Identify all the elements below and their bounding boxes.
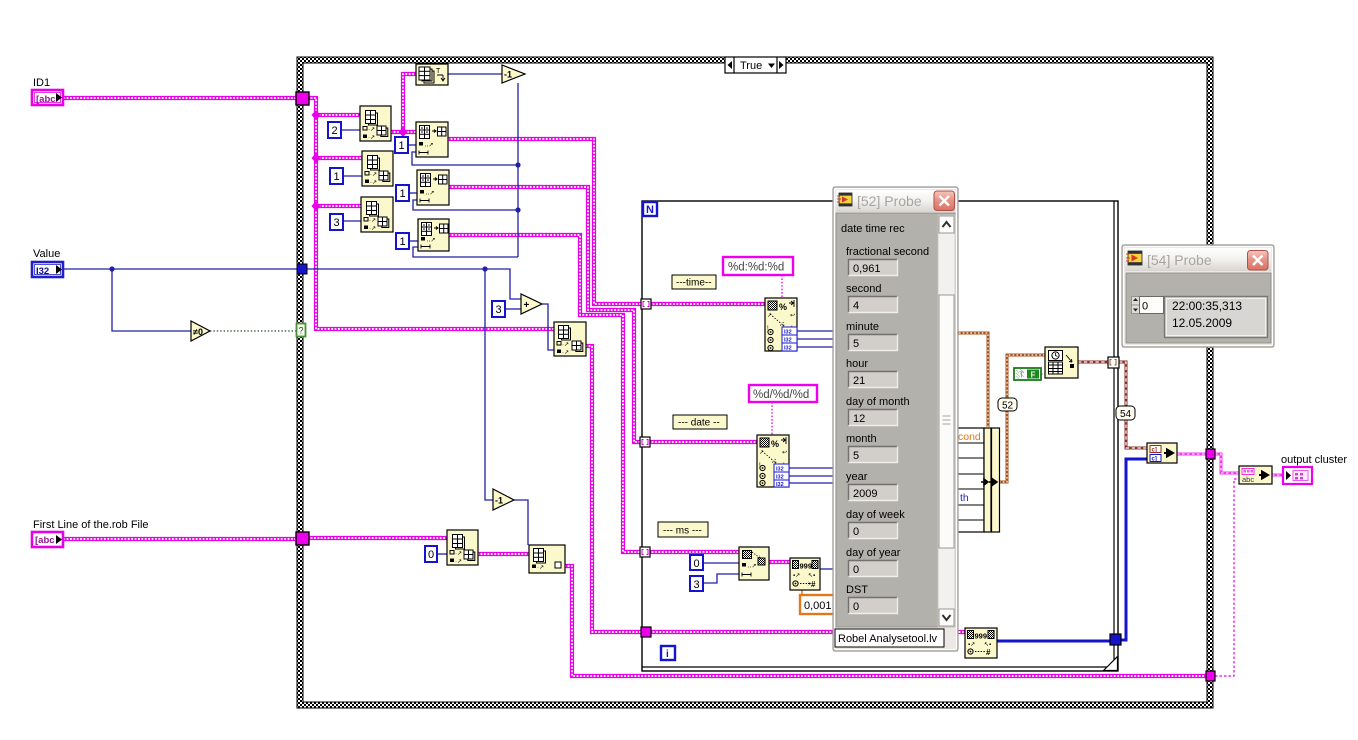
- svg-text:0: 0: [694, 558, 700, 570]
- wire cluster brown from probe area down to cluster column: [940, 333, 988, 427]
- wire Value branch to not-equal-zero: [112, 269, 191, 331]
- wire const 1 to node B: [343, 175, 362, 177]
- svg-text:‥↗: ‥↗: [427, 238, 436, 244]
- node index array B: [362, 151, 393, 186]
- svg-text:1: 1: [334, 171, 340, 183]
- node index array first-line: [447, 530, 478, 565]
- svg-text:%d/%d/%d: %d/%d/%d: [753, 389, 809, 401]
- node array subset A: [416, 122, 448, 157]
- svg-text:I32: I32: [36, 266, 49, 277]
- node scan time string: [765, 298, 797, 352]
- node decrement lower: [493, 489, 514, 510]
- wire First Line chain outside: [64, 537, 297, 541]
- probe 54 close button: [1248, 251, 1269, 271]
- wire date node I32 outputs: [789, 467, 835, 469]
- svg-text:22:00:35,313: 22:00:35,313: [1172, 299, 1242, 313]
- node index array second: [529, 545, 565, 573]
- svg-text:3: 3: [496, 304, 502, 316]
- node transpose 2D array: [416, 64, 448, 85]
- wire branch to index node B: [316, 156, 362, 160]
- constant 0,001 orange: [800, 595, 834, 614]
- svg-text:≠0: ≠0: [193, 327, 203, 337]
- constant 1 for subset A: [395, 137, 408, 153]
- format string %d:%d:%d: [723, 257, 793, 275]
- svg-text:12.05.2009: 12.05.2009: [1172, 316, 1232, 330]
- svg-text:21: 21: [853, 375, 865, 387]
- svg-text:2: 2: [332, 125, 338, 137]
- node 999 scan mid: [790, 558, 820, 590]
- svg-text:0,001: 0,001: [804, 600, 832, 612]
- probe 52 titlebar icon: [837, 193, 852, 206]
- constant 3: [330, 214, 343, 230]
- node scan date string: [757, 435, 789, 488]
- svg-text:0: 0: [428, 549, 434, 561]
- svg-text:0,961: 0,961: [853, 263, 881, 275]
- probe window 52: [833, 187, 958, 651]
- wire index node out to second node: [478, 552, 529, 556]
- node array subset C: [418, 219, 449, 251]
- node array subset B: [417, 170, 449, 205]
- junction dots blue: [109, 266, 114, 271]
- svg-text:F: F: [1031, 371, 1036, 380]
- constant 3 for plus: [492, 301, 505, 317]
- probe 54 time display: [1165, 297, 1268, 338]
- svg-text:·↗: ·↗: [562, 342, 569, 348]
- svg-text:‥↗: ‥↗: [426, 191, 435, 197]
- wire subset B out to loop tunnel 2: [449, 187, 642, 442]
- label 54: [1116, 406, 1135, 420]
- constant 1 for subset B: [396, 185, 409, 201]
- wire const 1 to subset C: [409, 240, 418, 242]
- wire node A out to subset A with transpose branch: [391, 130, 416, 134]
- node 999 scan bottom: [965, 628, 997, 658]
- tunnel loop magenta solid: [641, 627, 651, 637]
- svg-text:output cluster: output cluster: [1281, 454, 1347, 466]
- svg-text:Value: Value: [33, 248, 60, 260]
- constant 1: [330, 168, 343, 184]
- svg-text:c]: c]: [1152, 448, 1157, 454]
- constant 0 for ms: [690, 555, 703, 570]
- wire Value I32 outside: [64, 268, 297, 270]
- svg-text:0: 0: [1142, 301, 1148, 313]
- svg-text:[abc: [abc: [36, 94, 56, 105]
- svg-text:I32: I32: [784, 346, 792, 352]
- wire const 3 to plus: [505, 308, 521, 310]
- probe window 54: [1122, 245, 1274, 347]
- constant 0 for first-line node: [425, 546, 437, 562]
- svg-text:·↗: ·↗: [369, 218, 376, 224]
- terminal ID1: [32, 77, 63, 105]
- svg-text:▪↗: ▪↗: [968, 642, 975, 648]
- probe 52 scrollbar: [938, 215, 955, 627]
- wire cluster column arrow out up to format node: [999, 355, 1045, 482]
- svg-text:True: True: [740, 60, 762, 72]
- wire branch to index node C: [316, 204, 361, 208]
- svg-text:5: 5: [853, 338, 859, 350]
- svg-text:↗: ↗: [759, 450, 764, 456]
- wire abc bundle out to output cluster indicator: [1272, 474, 1283, 477]
- svg-text:2009: 2009: [853, 488, 877, 500]
- label date: [673, 415, 727, 429]
- wire const 2 to node A: [341, 129, 360, 131]
- tunnel case right magenta: [1206, 449, 1215, 459]
- svg-text:3: 3: [694, 579, 700, 591]
- svg-text:[52] Probe: [52] Probe: [857, 193, 922, 209]
- probe 52 fields: [846, 246, 929, 614]
- wire const 1 to subset B: [409, 192, 417, 194]
- tunnel loop cluster [] right: [1108, 357, 1119, 368]
- wire second node out along bottom to case right tunnel: [565, 566, 1207, 676]
- svg-text:5: 5: [853, 450, 859, 462]
- wire ID1 string-array chain: [64, 96, 297, 100]
- tunnel Value on case border: [297, 264, 307, 274]
- node ms array subset: [739, 547, 769, 580]
- svg-text:day of week: day of week: [846, 509, 905, 521]
- wire Value inside to plus node: [306, 269, 521, 299]
- svg-text:-1: -1: [495, 496, 503, 506]
- tunnel loop blue solid right: [1110, 634, 1121, 645]
- wire orange 0,001 to 999 node: [802, 589, 820, 595]
- svg-text:c]: c]: [1152, 457, 1157, 463]
- wire loop tunnel out down to bundle node (dark red dashed): [1119, 362, 1147, 448]
- svg-text:·↗: ·↗: [562, 350, 569, 356]
- svg-text:54: 54: [1120, 409, 1132, 420]
- svg-text:day of month: day of month: [846, 396, 910, 408]
- svg-text:i: i: [666, 649, 669, 660]
- probe 52 close button: [934, 191, 955, 211]
- svg-text:·↗: ·↗: [368, 127, 375, 133]
- svg-text:year: year: [846, 471, 868, 483]
- svg-text:minute: minute: [846, 321, 879, 333]
- svg-text:--- ms ---: --- ms ---: [663, 526, 702, 537]
- svg-text:T: T: [436, 68, 441, 75]
- wire format node out to loop border tunnel (dark red dashed): [1078, 361, 1108, 364]
- cluster constant column: [957, 428, 1000, 532]
- wire transpose out to top decrement: [448, 73, 502, 75]
- wire const 1 to subset A: [408, 144, 416, 146]
- wire bottom tunnel up to abc bundle (thin pink dashed): [1215, 479, 1239, 676]
- svg-text:N: N: [646, 204, 654, 216]
- wire 999 bottom node out to loop tunnel and up to bundle: [997, 640, 1111, 643]
- svg-text:abc: abc: [1242, 475, 1254, 484]
- case selector terminal ?: [297, 324, 306, 337]
- probe 54 titlebar icon: [1126, 251, 1142, 265]
- wire time node I32 outputs: [797, 330, 835, 332]
- svg-text:1: 1: [400, 188, 406, 200]
- wire plus out to big index node: [542, 304, 554, 350]
- svg-text:#: #: [811, 580, 816, 589]
- svg-text:First Line of the.rob File: First Line of the.rob File: [33, 519, 149, 531]
- wire loop tunnel1 to time scan node: [650, 302, 765, 306]
- constant 3 for ms: [690, 576, 703, 591]
- node index array A: [360, 106, 391, 141]
- wire lower decrement out to second node: [514, 500, 528, 545]
- wire TF constant to format node: [1041, 373, 1045, 375]
- svg-text:%: %: [771, 439, 779, 449]
- svg-text:cond: cond: [958, 431, 981, 443]
- constant 1 for subset C: [396, 233, 409, 249]
- node decrement top: [502, 65, 525, 83]
- page curl bottom-right: [1104, 657, 1118, 671]
- svg-text:3: 3: [334, 217, 340, 229]
- wire First Line inside to index node: [308, 536, 447, 540]
- wire format string %d/%d/%d to date node: [771, 402, 773, 435]
- wire 999 mid node out: [820, 568, 836, 570]
- label 52: [998, 398, 1017, 412]
- svg-text:#: #: [986, 648, 991, 657]
- wire subset C out to loop tunnel 3: [449, 235, 642, 552]
- svg-text:·↗: ·↗: [537, 565, 544, 571]
- terminal First Line of the.rob File: [32, 519, 149, 547]
- wire ms node to 999 node: [769, 560, 790, 564]
- svg-text:↩: ↩: [782, 450, 787, 456]
- wire top decrement down rail with subset length feeds: [517, 83, 519, 257]
- for loop count terminal N: [643, 202, 657, 216]
- tunnel First Line on case border: [296, 532, 309, 545]
- wire format string %d:%d:%d to time node: [781, 275, 783, 298]
- for loop frame: [642, 201, 1118, 671]
- indicator output cluster: [1281, 454, 1347, 484]
- svg-text:date time rec: date time rec: [841, 223, 905, 235]
- svg-text:%d:%d:%d: %d:%d:%d: [728, 262, 784, 274]
- svg-text:-1: -1: [504, 70, 512, 80]
- svg-text:·↗: ·↗: [368, 135, 375, 141]
- svg-text:·↗: ·↗: [370, 180, 377, 186]
- wire bundle out to case tunnel (cluster): [1177, 453, 1207, 456]
- svg-text:0: 0: [853, 564, 859, 576]
- svg-text:4: 4: [853, 300, 859, 312]
- wire loop tunnel2 to date scan node: [649, 440, 757, 444]
- svg-text:1: 1: [400, 236, 406, 248]
- svg-text:DST: DST: [846, 584, 868, 596]
- tunnel loop 3 []: [640, 547, 650, 557]
- svg-text:fractional second: fractional second: [846, 246, 929, 258]
- svg-text:month: month: [846, 433, 877, 445]
- wire loop tunnel3 to ms node: [649, 550, 739, 554]
- svg-text:second: second: [846, 283, 881, 295]
- svg-text:0: 0: [853, 601, 859, 613]
- svg-text:999: 999: [975, 632, 988, 641]
- svg-text:+: +: [524, 300, 530, 311]
- constant TF false: [1014, 368, 1041, 380]
- svg-text:▪↗: ▪↗: [793, 573, 800, 579]
- probe 54 numeric control: [1132, 297, 1164, 314]
- svg-text:·↗: ·↗: [455, 551, 462, 557]
- node index array C: [361, 197, 393, 232]
- wire const 3 to ms node: [703, 574, 739, 583]
- probe 52 vi name box: [835, 629, 944, 647]
- tunnel case bottom right magenta: [1206, 671, 1215, 681]
- wire const 0 to ms node: [703, 562, 739, 564]
- case selector label True: [725, 57, 786, 73]
- constant 2: [328, 122, 341, 138]
- tunnel loop 2 []: [640, 437, 650, 447]
- format string %d/%d/%d: [749, 385, 817, 402]
- svg-text:‥↗: ‥↗: [425, 143, 434, 149]
- probe 52 content panel: [836, 213, 955, 627]
- terminal Value: [32, 248, 63, 277]
- svg-text:?: ?: [299, 326, 304, 336]
- svg-text:%: %: [779, 302, 787, 312]
- svg-text:·↗: ·↗: [369, 226, 376, 232]
- svg-text:·↗: ·↗: [455, 559, 462, 565]
- svg-text:Robel Analysetool.lv: Robel Analysetool.lv: [838, 633, 938, 645]
- wire ID1 inside: down left rail to big index node: [308, 98, 554, 329]
- case structure outer border (checkered): [297, 57, 1213, 708]
- svg-text:[abc: [abc: [35, 535, 55, 546]
- tunnel loop 1 []: [641, 299, 651, 309]
- wire branch to index node A: [316, 113, 360, 117]
- wire case tunnel to abc bundle node: [1215, 454, 1239, 473]
- svg-text:999: 999: [800, 562, 813, 571]
- svg-text:T: T: [1019, 371, 1024, 380]
- svg-text:th: th: [960, 492, 969, 504]
- svg-text:↖▪: ↖▪: [808, 573, 815, 579]
- svg-text:--- date --: --- date --: [678, 418, 720, 429]
- node not-equal-zero: [191, 321, 210, 341]
- svg-text:hour: hour: [846, 358, 868, 370]
- svg-text:---time--: ---time--: [676, 278, 712, 289]
- svg-text:52: 52: [1002, 401, 1014, 412]
- svg-text:‥↗: ‥↗: [748, 564, 757, 570]
- wire const 0 to first-line index node: [437, 553, 447, 555]
- tunnel ID1 on case border: [296, 92, 309, 105]
- junction diamonds magenta: [312, 110, 321, 120]
- svg-text:[54] Probe: [54] Probe: [1147, 252, 1212, 268]
- svg-text:1: 1: [399, 140, 405, 152]
- label time: [672, 275, 716, 289]
- for loop iteration terminal i: [661, 646, 675, 660]
- svg-text:·↗: ·↗: [370, 172, 377, 178]
- svg-text:↩: ↩: [790, 313, 795, 319]
- node bundle abc: [1239, 466, 1272, 484]
- node format date time string: [1045, 347, 1078, 378]
- wire big index node out to loop left magenta tunnel: [586, 346, 642, 632]
- node plus: [521, 294, 542, 314]
- wire const 3 to node C: [343, 220, 361, 222]
- probe 54 content panel: [1126, 273, 1271, 343]
- svg-text:12: 12: [853, 413, 865, 425]
- wire subset A out to loop tunnel 1: [448, 139, 642, 304]
- node big index array: [554, 322, 586, 356]
- svg-text:day of year: day of year: [846, 547, 901, 559]
- label ms: [658, 522, 708, 537]
- svg-text:I32: I32: [776, 482, 784, 488]
- wire not-equal-zero out (boolean dotted) to case selector: [210, 330, 296, 332]
- wire inside loop from magenta tunnel to bottom 999 node: [650, 630, 965, 634]
- node index bundle cluster array: [1147, 443, 1177, 463]
- wire Value branch down to decrement: [485, 269, 493, 500]
- svg-text:0: 0: [853, 526, 859, 538]
- svg-text:↗: ↗: [767, 313, 772, 319]
- svg-text:ID1: ID1: [33, 77, 50, 89]
